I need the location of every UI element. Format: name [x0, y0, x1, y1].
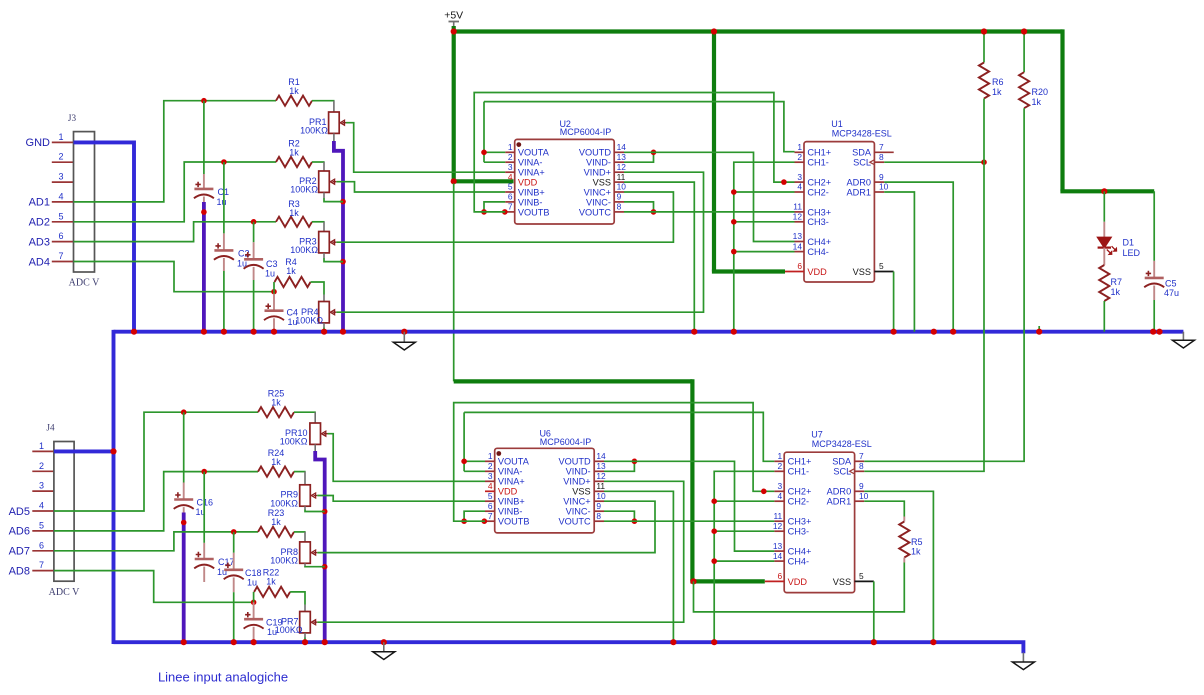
- junction U6 VOUTB rail at CH2+ pin wire: [761, 489, 767, 495]
- svg-text:1k: 1k: [266, 576, 276, 586]
- potentiometer PR1 body: [329, 112, 340, 133]
- junction purple C16 at GND bus: [181, 639, 187, 645]
- capacitor C1 plus sign: [195, 182, 200, 187]
- potentiometer PR3 body: [319, 232, 330, 253]
- svg-text:Linee input analogiche: Linee input analogiche: [158, 670, 288, 685]
- potentiometer PR10 wiper arrow: [322, 431, 328, 436]
- junction VOUTD node: [651, 150, 657, 156]
- svg-text:4: 4: [778, 491, 783, 501]
- svg-text:VINC+: VINC+: [584, 187, 611, 197]
- junction +5V at top left corner: [451, 28, 457, 34]
- junction AD4/C4/R4 node: [271, 289, 277, 295]
- junction U6 VOUTD node: [632, 459, 638, 465]
- svg-text:13: 13: [773, 541, 783, 551]
- svg-text:J4: J4: [46, 423, 55, 433]
- LED D1 cathode bar: [1098, 247, 1111, 249]
- wire R6 column down to U7 SCL: [864, 99, 984, 472]
- resistor R5 bottom lead: [903, 558, 905, 563]
- svg-text:VIND-: VIND-: [586, 158, 611, 168]
- junction C18 at GND bus: [231, 639, 237, 645]
- svg-text:1u: 1u: [247, 578, 257, 588]
- svg-text:AD2: AD2: [29, 217, 50, 229]
- wire purple C1 to GND bus: [202, 202, 206, 333]
- wire +5V thick to U2 VDD pin 4: [452, 179, 514, 183]
- svg-text:R7: R7: [1111, 277, 1123, 287]
- svg-text:VOUTB: VOUTB: [498, 517, 530, 527]
- svg-text:1: 1: [797, 142, 802, 152]
- svg-text:R6: R6: [992, 77, 1004, 87]
- ground symbol triangle: [373, 652, 395, 660]
- junction purple at GND bus: [340, 329, 346, 335]
- pot PR3 bottom lead: [323, 253, 325, 258]
- wire R1 row to C1: [203, 101, 205, 174]
- junction ADR0 at GND bus: [950, 329, 956, 335]
- svg-text:VINA+: VINA+: [518, 168, 545, 178]
- wire +5V thick horizontal to U1 VDD pin 6: [712, 269, 785, 273]
- svg-text:2: 2: [797, 152, 802, 162]
- svg-text:CH1+: CH1+: [807, 148, 831, 158]
- connector J3 body: [74, 132, 95, 272]
- svg-text:AD4: AD4: [29, 256, 50, 268]
- wire R4 to PR4: [311, 282, 325, 295]
- pot PR8 bottom lead: [304, 563, 306, 566]
- wire U7 CH2- branch: [714, 500, 774, 502]
- svg-text:6: 6: [508, 192, 513, 202]
- wire R7 to GND bus: [1103, 301, 1105, 332]
- resistor R6 body: [979, 63, 989, 99]
- wire U2 VIND- to VOUTD feedback: [624, 152, 654, 162]
- wire PR9 wiper to U6 VINB+: [317, 496, 485, 502]
- svg-text:1k: 1k: [289, 208, 299, 218]
- op-amp U2 pin-1 marker: [516, 142, 521, 147]
- ADC U7 right pin stubs: [855, 460, 865, 462]
- wire VOUTC rail to U1 CH3+: [624, 211, 795, 213]
- svg-text:VOUTB: VOUTB: [518, 207, 550, 217]
- wire +5V rail corner to C5: [1153, 191, 1155, 261]
- svg-text:100KΩ: 100KΩ: [300, 126, 328, 136]
- svg-text:8: 8: [859, 461, 864, 471]
- svg-text:D1: D1: [1123, 238, 1135, 248]
- capacitor C4 top lead: [273, 294, 275, 311]
- wire AD8 to R22/C19 node: [54, 571, 254, 603]
- resistor R20 body: [1019, 72, 1029, 108]
- svg-text:8: 8: [617, 202, 622, 212]
- potentiometer PR8 wiper arrow: [311, 550, 317, 555]
- svg-text:47u: 47u: [1164, 288, 1179, 298]
- svg-text:VDD: VDD: [807, 267, 827, 277]
- junction +5V rail / U1 branch: [711, 28, 717, 34]
- capacitor C3 bottom lead: [253, 267, 255, 280]
- junction at LED branch: [1101, 188, 1107, 194]
- pot PR8 top lead: [304, 532, 306, 542]
- op-amp U6 right pin stubs: [594, 460, 604, 462]
- junction purple/PR8: [322, 564, 328, 570]
- svg-text:4: 4: [797, 182, 802, 192]
- wire U1 VSS to GND bus: [893, 272, 895, 332]
- wire C2 to GND bus: [223, 271, 225, 332]
- svg-text:VIND+: VIND+: [563, 477, 590, 487]
- wire U7 VSS to bottom GND bus: [873, 581, 875, 642]
- pot PR1 bottom lead: [333, 133, 335, 141]
- svg-text:MCP3428-ESL: MCP3428-ESL: [812, 439, 872, 449]
- svg-text:9: 9: [879, 172, 884, 182]
- svg-text:C3: C3: [266, 259, 278, 269]
- capacitor C16 bottom lead: [183, 507, 185, 512]
- svg-text:6: 6: [488, 501, 493, 511]
- svg-text:12: 12: [793, 212, 803, 222]
- resistor R3 body: [276, 217, 312, 227]
- svg-text:MCP3428-ESL: MCP3428-ESL: [832, 128, 892, 138]
- svg-text:CH4-: CH4-: [788, 557, 809, 567]
- svg-text:1k: 1k: [1032, 97, 1042, 107]
- svg-text:AD1: AD1: [29, 197, 50, 209]
- svg-text:SDA: SDA: [852, 148, 872, 158]
- LED D1 emission arrows: [1107, 250, 1112, 255]
- junction C19 at GND bus: [251, 639, 257, 645]
- wire AD3 to R3: [74, 222, 277, 242]
- wire CH2- branch: [734, 191, 795, 193]
- capacitor C17 bottom lead: [203, 567, 205, 582]
- svg-text:1k: 1k: [289, 86, 299, 96]
- wire +5V to R6: [983, 32, 985, 63]
- pot PR7 top lead: [304, 605, 306, 612]
- svg-text:VINB-: VINB-: [518, 197, 543, 207]
- wire GND left vertical to bottom bus: [112, 330, 116, 644]
- svg-text:VDD: VDD: [788, 577, 808, 587]
- junction C18 tap on R23 row: [231, 529, 237, 535]
- junction SCL at R6 column: [981, 159, 987, 165]
- capacitor C17 plates: [195, 558, 214, 561]
- svg-text:VINA-: VINA-: [498, 467, 523, 477]
- capacitor C5 plates: [1145, 277, 1164, 280]
- wire U2 VINB- to VOUTB feedback: [484, 202, 505, 212]
- wire VOUTD rail to U1 CH4+: [624, 152, 795, 241]
- wire PR8 bottom to purple chain: [305, 565, 325, 568]
- ADC U7 body: [784, 452, 854, 592]
- wire AD6 to R24: [54, 472, 258, 531]
- svg-text:CH1+: CH1+: [788, 457, 812, 467]
- potentiometer PR2 body: [319, 171, 330, 192]
- wire R2 row to C2: [223, 162, 225, 233]
- wire PR9 bottom to purple chain: [305, 510, 325, 512]
- svg-text:AD5: AD5: [9, 506, 30, 518]
- svg-text:CH3-: CH3-: [788, 527, 809, 537]
- junction GND bus at J3 drop: [131, 329, 137, 335]
- svg-text:2: 2: [508, 152, 513, 162]
- svg-text:3: 3: [508, 162, 513, 172]
- svg-text:VSS: VSS: [572, 487, 590, 497]
- potentiometer PR4 wiper arrow: [330, 310, 336, 315]
- svg-text:VDD: VDD: [498, 487, 518, 497]
- junction U6 VINB-/VOUTB: [461, 518, 467, 524]
- svg-text:100KΩ: 100KΩ: [290, 185, 318, 195]
- svg-text:2: 2: [488, 461, 493, 471]
- svg-text:CH3+: CH3+: [788, 517, 812, 527]
- svg-text:14: 14: [773, 551, 783, 561]
- wire U6 VOUTA to VINA- feedback: [464, 412, 485, 471]
- potentiometer PR1 wiper arrow: [340, 120, 346, 125]
- resistor R5 top lead: [903, 517, 905, 522]
- op-amp U2 left pin stubs: [505, 151, 515, 153]
- junction VOUTB rail at CH2+ pin wire: [781, 179, 787, 185]
- wire +5V to R20: [1023, 32, 1025, 73]
- svg-text:CH4+: CH4+: [788, 547, 812, 557]
- junction U2 VSS at GND bus: [691, 329, 697, 335]
- svg-text:1: 1: [39, 441, 44, 451]
- svg-text:VINC-: VINC-: [566, 507, 591, 517]
- wire C18 column from R23 row: [233, 532, 235, 553]
- svg-text:4: 4: [488, 481, 493, 491]
- wire C18 to GND bus: [233, 592, 235, 642]
- wire PR4 wiper to U2 VIND+: [336, 172, 703, 312]
- potentiometer PR8 body: [300, 542, 311, 563]
- svg-text:1k: 1k: [286, 266, 296, 276]
- wire PR3 bottom to purple chain: [324, 258, 343, 262]
- wire U1 ADR1 to GND bus: [884, 192, 914, 332]
- wire +5V thin vertical continuation down to lower rail: [453, 183, 455, 381]
- svg-text:7: 7: [59, 251, 64, 261]
- pot PR1 top lead: [333, 101, 335, 112]
- svg-text:VSS: VSS: [593, 178, 611, 188]
- wire PR2 wiper to U2 VINB+: [336, 182, 505, 192]
- svg-text:CH3-: CH3-: [807, 217, 828, 227]
- wire R24 to PR9: [294, 471, 306, 473]
- svg-text:CH1-: CH1-: [807, 158, 828, 168]
- svg-text:7: 7: [859, 451, 864, 461]
- wire R25 to PR10: [294, 411, 316, 413]
- ground symbol stem: [403, 332, 405, 343]
- connector J4 pin stubs: [32, 450, 54, 452]
- svg-text:SDA: SDA: [832, 457, 852, 467]
- svg-text:+5V: +5V: [444, 10, 463, 22]
- resistor R7 body: [1099, 265, 1109, 301]
- wire +5V thick vertical to U7 VDD: [690, 379, 694, 581]
- wire PR4 bottom to GND bus: [323, 328, 325, 332]
- resistor R5 body: [899, 522, 909, 558]
- svg-text:5: 5: [508, 182, 513, 192]
- svg-text:C5: C5: [1165, 278, 1177, 288]
- pot PR9 bottom lead: [304, 506, 306, 509]
- wire R22 to PR7: [290, 592, 305, 605]
- junction R20 at +5V rail: [1021, 28, 1027, 34]
- wire U6 VOUTA rail to U7 CH1+: [464, 412, 774, 461]
- svg-text:ADC V: ADC V: [49, 587, 80, 598]
- capacitor C2 bottom lead: [223, 258, 225, 271]
- junction C3 at GND bus: [251, 329, 257, 335]
- svg-text:12: 12: [596, 471, 606, 481]
- svg-text:CH2+: CH2+: [807, 178, 831, 188]
- ADC U7 SCL clock mark: [850, 469, 855, 474]
- wire R23 to PR8: [294, 531, 306, 533]
- ground symbol stem: [383, 642, 385, 652]
- junction PR7 at GND bus: [302, 639, 308, 645]
- wire R3 to PR3: [312, 221, 325, 223]
- svg-text:CH3+: CH3+: [807, 207, 831, 217]
- wire C4 to GND bus: [273, 331, 275, 332]
- capacitor C3 plus sign: [245, 252, 250, 257]
- junction U6 VOUTB at pin: [482, 518, 488, 524]
- svg-text:VOUTA: VOUTA: [498, 457, 530, 467]
- junction C2 at GND bus: [221, 329, 227, 335]
- wire U2 VSS to GND bus: [624, 182, 694, 332]
- svg-text:C18: C18: [245, 568, 262, 578]
- svg-text:9: 9: [596, 501, 601, 511]
- capacitor C1 top lead: [203, 174, 205, 189]
- resistor R4 body: [275, 277, 311, 287]
- junction ground symbol on top bus: [401, 329, 407, 335]
- op-amp U6 body: [495, 448, 595, 533]
- pot PR10 top lead: [314, 412, 316, 423]
- svg-text:AD3: AD3: [29, 236, 50, 248]
- svg-text:3: 3: [797, 172, 802, 182]
- wire U1 CH- common rail: [734, 162, 795, 332]
- svg-text:12: 12: [773, 521, 783, 531]
- svg-text:5: 5: [59, 211, 64, 221]
- wire U6 VIND- to VOUTD feedback: [604, 461, 634, 471]
- svg-text:AD7: AD7: [9, 546, 30, 558]
- wire +5V thick horizontal top rail: [454, 29, 1063, 33]
- svg-text:VOUTC: VOUTC: [558, 517, 591, 527]
- ground symbol bottom right triangle: [1012, 662, 1034, 670]
- wire PR1 wiper to U2 VINA+: [346, 123, 505, 173]
- svg-text:100KΩ: 100KΩ: [270, 498, 298, 508]
- potentiometer PR7 wiper arrow: [311, 620, 317, 625]
- svg-text:1k: 1k: [271, 517, 281, 527]
- svg-text:1: 1: [508, 142, 513, 152]
- capacitor C1 plates: [194, 188, 213, 191]
- wire R1 to PR1: [312, 100, 335, 102]
- op-amp U2 body: [515, 139, 615, 224]
- capacitor C18 bottom lead: [233, 577, 235, 592]
- junction C1 tap on R1 row: [201, 98, 207, 104]
- svg-text:MCP6004-IP: MCP6004-IP: [560, 127, 612, 137]
- wire GND from J4 pin1: [54, 449, 114, 453]
- capacitor C16 top lead: [183, 483, 185, 500]
- svg-text:3: 3: [39, 481, 44, 491]
- svg-text:9: 9: [617, 192, 622, 202]
- wire C5 to GND bus: [1153, 300, 1155, 332]
- capacitor C2 top lead: [223, 233, 225, 250]
- svg-text:VOUTC: VOUTC: [579, 207, 612, 217]
- potentiometer PR9 wiper arrow: [311, 493, 317, 498]
- capacitor C19 plus sign: [245, 612, 250, 617]
- junction CH4- on minus rail: [731, 249, 737, 255]
- wire CH4- branch: [734, 251, 795, 253]
- wire PR3 wiper to U2 VINC+: [336, 192, 673, 242]
- junction ground symbol on bottom bus: [381, 639, 387, 645]
- capacitor C5 top lead: [1153, 261, 1155, 278]
- connector J3 pin stubs: [52, 141, 74, 143]
- svg-text:CH4-: CH4-: [807, 247, 828, 257]
- junction U6 VOUTA node: [461, 459, 467, 465]
- svg-text:9: 9: [859, 481, 864, 491]
- wire PR7 bottom to GND bus: [304, 638, 306, 643]
- svg-text:VINC+: VINC+: [563, 497, 590, 507]
- wire R2 to PR2: [312, 161, 325, 163]
- svg-text:VINB+: VINB+: [518, 187, 545, 197]
- wire PR10 wiper to U6 VINA+: [328, 434, 486, 482]
- wire U6 VINC- to VOUTC feedback: [604, 511, 634, 521]
- junction on purple C1 wire: [201, 209, 207, 215]
- wire +5V rail to LED D1: [1103, 191, 1105, 222]
- svg-text:VOUTD: VOUTD: [558, 457, 591, 467]
- svg-text:100KΩ: 100KΩ: [270, 556, 298, 566]
- potentiometer PR3 wiper arrow: [330, 240, 336, 245]
- svg-text:VOUTA: VOUTA: [518, 148, 550, 158]
- svg-text:7: 7: [879, 142, 884, 152]
- svg-text:10: 10: [859, 491, 869, 501]
- svg-text:7: 7: [508, 202, 513, 212]
- svg-text:VIND+: VIND+: [584, 168, 611, 178]
- svg-text:3: 3: [488, 471, 493, 481]
- junction purple/PR3: [340, 259, 346, 265]
- svg-text:1: 1: [488, 451, 493, 461]
- junction VOUTA node: [481, 150, 487, 156]
- capacitor C18 top lead: [233, 553, 235, 570]
- svg-text:VINC-: VINC-: [586, 197, 611, 207]
- pot PR4 bottom lead: [323, 323, 325, 328]
- svg-text:13: 13: [596, 461, 606, 471]
- ground symbol triangle: [1172, 340, 1194, 348]
- wire U1 SCL to R6 column: [884, 161, 984, 163]
- svg-text:100KΩ: 100KΩ: [280, 437, 308, 447]
- LED D1 bottom lead: [1103, 248, 1105, 265]
- svg-text:GND: GND: [26, 137, 51, 149]
- wire +5V thick right corner down: [1060, 29, 1064, 191]
- svg-text:100KΩ: 100KΩ: [290, 245, 318, 255]
- junction CH3- on lower minus rail: [711, 528, 717, 534]
- svg-text:13: 13: [793, 231, 803, 241]
- pot PR2 bottom lead: [323, 192, 325, 198]
- junction U2 VDD: [451, 178, 457, 184]
- junction VINB-/VOUTB: [481, 209, 487, 215]
- junction U7 VDD / R5 return: [690, 578, 696, 584]
- wire GND from J3 pin1: [74, 142, 135, 331]
- potentiometer PR2 wiper arrow: [330, 179, 336, 184]
- svg-text:CH2+: CH2+: [788, 487, 812, 497]
- junction CH4- on lower minus rail: [711, 558, 717, 564]
- wire +5V thick horizontal to U7 VDD pin 6: [690, 579, 765, 583]
- capacitor C4 plus sign: [266, 304, 271, 309]
- svg-text:1k: 1k: [1111, 287, 1121, 297]
- svg-text:14: 14: [596, 451, 606, 461]
- svg-text:SCL: SCL: [853, 158, 871, 168]
- op-amp U6 pin-1 marker: [496, 451, 501, 456]
- wire +5V thick vertical from symbol to U2 VDD: [452, 26, 456, 181]
- resistor R22 body: [254, 587, 290, 597]
- wire purple C16 to GND bus: [182, 513, 186, 644]
- junction purple/PR2: [340, 199, 346, 205]
- capacitor C5 plus sign: [1146, 271, 1151, 276]
- junction GND at J4: [110, 448, 116, 454]
- wire +5V thick vertical to U1 VDD: [712, 32, 716, 272]
- wire R5 to U7 VDD node: [694, 563, 905, 612]
- wire C3 to GND bus: [253, 280, 255, 332]
- junction U7 ADR0 at GND bus: [930, 639, 936, 645]
- junction C16 tap on R25 row: [181, 409, 187, 415]
- capacitor C2 plus sign: [215, 243, 220, 248]
- wire +5V thick horizontal to LED / C5: [1060, 189, 1154, 193]
- LED D1 triangle: [1098, 237, 1111, 247]
- svg-text:R20: R20: [1032, 87, 1049, 97]
- ADC U1 SCL clock mark: [870, 160, 875, 165]
- svg-text:LED: LED: [1123, 248, 1141, 258]
- wire U7 ADR0 to bottom GND bus: [864, 491, 933, 642]
- junction U6 VSS at GND bus: [670, 639, 676, 645]
- wire +5V thick lower horizontal rail: [454, 379, 693, 383]
- svg-text:2: 2: [778, 461, 783, 471]
- svg-text:6: 6: [797, 261, 802, 271]
